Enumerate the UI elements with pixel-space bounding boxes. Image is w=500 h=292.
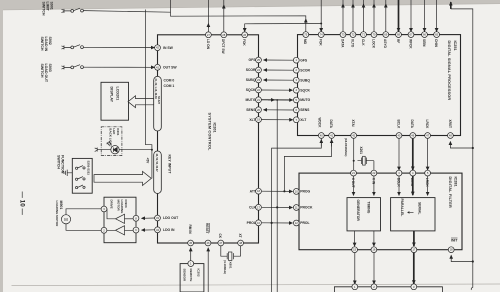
timing generator box <box>347 198 381 231</box>
svg-text:18: 18 <box>450 248 453 252</box>
svg-text:11: 11 <box>295 206 298 210</box>
wire IC201 LD ON pin up off-page <box>207 0 209 32</box>
svg-text:X IN: X IN <box>371 178 375 185</box>
svg-text:66: 66 <box>423 33 426 37</box>
svg-text:SWITCH: SWITCH <box>57 155 61 169</box>
svg-text:MOTOR: MOTOR <box>116 200 120 212</box>
wire CLK row to PROCK <box>262 206 293 208</box>
DSP top pin labels <box>303 39 438 49</box>
wire timing gen out 2 <box>373 231 375 246</box>
svg-text:DIGITAL SIGNAL PROCESSOR: DIGITAL SIGNAL PROCESSOR <box>447 41 451 101</box>
wire CLK up off-page <box>363 0 365 32</box>
wire V down to page edge with hook <box>471 262 473 290</box>
svg-text:16: 16 <box>372 248 375 252</box>
node PROL bus tap <box>271 222 273 224</box>
svg-text:LCD201: LCD201 <box>116 87 120 101</box>
svg-text:XLTO: XLTO <box>350 39 354 48</box>
pin ATT <box>256 188 262 194</box>
pin DATA (DSP top) <box>340 32 346 38</box>
svg-text:17: 17 <box>412 248 415 252</box>
wire X OUT into timing generator <box>353 176 355 195</box>
svg-text:SENS: SENS <box>246 108 256 112</box>
overline RESET (vertical) <box>208 223 210 233</box>
svg-text:IN SW: IN SW <box>163 46 174 50</box>
svg-text:DATA: DATA <box>329 120 333 129</box>
svg-text:WFCK: WFCK <box>408 39 412 49</box>
wire FOK branch to IC201 FOK pin <box>245 24 322 32</box>
svg-text:LOCK: LOCK <box>371 39 375 49</box>
svg-text:70: 70 <box>373 33 376 37</box>
labels IC201 right pins <box>246 58 257 225</box>
pin ASYO <box>383 32 389 38</box>
pin CLK (IC201) <box>256 204 262 210</box>
svg-text:SWITCH: SWITCH <box>42 2 46 16</box>
wire buffer2 <box>104 229 133 231</box>
pin LDO IN <box>155 227 161 233</box>
IC201 SYSTEM CONTROL box <box>158 35 259 243</box>
node crystal tap <box>353 160 355 162</box>
pin PROL (IC201) <box>256 220 262 226</box>
svg-text:S201-S211: S201-S211 <box>87 161 91 176</box>
svg-text:BCLK: BCLK <box>396 120 400 130</box>
svg-text:71: 71 <box>362 33 365 37</box>
pin MUTG (DSP) <box>293 97 299 103</box>
svg-text:COM 0: COM 0 <box>164 79 175 83</box>
pin IC903 left 2 <box>101 227 107 233</box>
loading motor M901 <box>61 215 70 224</box>
svg-text:40: 40 <box>320 134 323 138</box>
pin XLT (DSP) <box>293 117 299 123</box>
pin INIT <box>448 247 454 253</box>
svg-text:22: 22 <box>372 171 375 175</box>
wire IC201 DFCT SW pin up off-page <box>223 0 225 32</box>
svg-text:SQCK: SQCK <box>246 88 256 92</box>
svg-text:FOK: FOK <box>319 39 323 46</box>
wire XT down to crystal <box>240 246 242 256</box>
ground <box>64 170 72 176</box>
pin RESET <box>205 240 211 246</box>
svg-text:DATA: DATA <box>340 39 344 48</box>
wire motor top <box>66 209 101 215</box>
pin LRCK (DSP) <box>425 133 431 139</box>
wire serial/parallel out (thick) <box>413 231 415 246</box>
wire XRST net top stub with up arrow (thick) <box>450 2 452 9</box>
arrow serial to parallel <box>408 212 414 214</box>
pin LDO OUT <box>155 215 161 221</box>
wire DATA into serial/parallel (thick) <box>412 176 414 195</box>
svg-text:DATA: DATA <box>410 178 414 187</box>
node ATT bus tap <box>283 190 285 192</box>
wire SCOR row <box>264 69 295 71</box>
svg-text:LOADING MOTOR: LOADING MOTOR <box>55 201 59 228</box>
switch S903 connector <box>62 65 71 69</box>
node FOK branch <box>320 23 322 25</box>
svg-text:RM IN: RM IN <box>188 225 192 235</box>
pin BCLK (filter) <box>396 170 402 176</box>
svg-text:47: 47 <box>219 241 222 245</box>
svg-text:XRST: XRST <box>448 120 452 129</box>
svg-text:41: 41 <box>330 134 333 138</box>
pin SEIN <box>422 32 428 38</box>
pin SQCK (DSP) <box>293 87 299 93</box>
svg-text:41: 41 <box>156 65 159 69</box>
IC281 DIGITAL FILTER box <box>299 173 462 250</box>
svg-text:DATA: DATA <box>410 120 414 129</box>
wire LOCK up off-page <box>373 0 375 32</box>
svg-text:XTAI: XTAI <box>351 120 355 127</box>
switch S901 <box>71 8 84 12</box>
wire MUTG tap down <box>276 100 278 292</box>
pin GFS (DSP) <box>293 57 299 63</box>
pin X IN <box>371 170 377 176</box>
svg-text:SERIAL: SERIAL <box>418 202 422 214</box>
svg-text:LRCK: LRCK <box>425 120 429 130</box>
svg-text:BACK LIGHT: BACK LIGHT <box>109 128 113 147</box>
pin DATA2 (DSP bottom) <box>410 133 416 139</box>
pin bottom box 3 <box>411 284 417 290</box>
wire BCLK into serial/parallel <box>398 176 400 195</box>
wire INIT from V corner <box>451 255 473 261</box>
wire S901 to MO line <box>83 11 170 13</box>
svg-text:75: 75 <box>304 33 307 37</box>
wire buffer1 in <box>125 218 134 220</box>
svg-text:OUT SW: OUT SW <box>163 66 177 70</box>
svg-text:42: 42 <box>352 134 355 138</box>
svg-text:DIGITAL FILTER: DIGITAL FILTER <box>448 177 452 208</box>
pin DFCT SW <box>221 32 227 38</box>
svg-text:SEIN: SEIN <box>422 39 426 47</box>
svg-text:28: 28 <box>222 33 225 37</box>
op-amp buffer 2 <box>116 226 125 235</box>
wire S903 to OUT SW <box>83 66 154 68</box>
wire WFCK from off-page <box>410 0 412 32</box>
connector LED <box>95 148 111 152</box>
hollow arrow LCD <box>128 96 154 108</box>
svg-text:46: 46 <box>411 134 414 138</box>
pin IN SW <box>155 45 161 51</box>
pin SUBQ (DSP) <box>293 77 299 83</box>
pin RM IN <box>188 240 194 246</box>
wire X IN into timing generator <box>373 176 375 195</box>
pin SQCK (IC201) <box>256 87 262 93</box>
pin SENS (DSP) <box>293 107 299 113</box>
svg-text:PROL: PROL <box>300 221 309 225</box>
hollow arrow key input <box>94 171 151 185</box>
wire SEIN from off-page <box>424 0 426 32</box>
svg-text:INIT: INIT <box>451 239 458 243</box>
wire RM IN from IC202 <box>190 248 192 261</box>
svg-text:IC202: IC202 <box>197 269 201 277</box>
svg-text:45: 45 <box>398 134 401 138</box>
switch S902 connector <box>62 45 71 49</box>
wire BCLK down <box>398 139 400 171</box>
arrow into DATA pin <box>331 140 333 147</box>
pin bottom box 1 <box>352 284 358 290</box>
IC903 loading motor drive box <box>104 197 136 243</box>
svg-text:42: 42 <box>156 46 159 50</box>
pin DATA (filter) <box>410 170 416 176</box>
pin IC903 left 1 <box>101 206 107 212</box>
svg-text:M: M <box>64 217 68 222</box>
svg-text:XLT: XLT <box>300 118 307 122</box>
svg-text:WDCK: WDCK <box>318 118 322 129</box>
svg-text:REMOTE: REMOTE <box>189 269 193 282</box>
IC201 bottom pin labels <box>188 223 242 239</box>
wire buffer1 out <box>104 209 116 219</box>
wire CK down to crystal <box>221 246 227 256</box>
svg-text:67: 67 <box>410 33 413 37</box>
svg-text:LRCK: LRCK <box>425 178 429 188</box>
pin PROG <box>293 189 299 195</box>
wire XRST from V line <box>450 142 472 149</box>
crystal X801 <box>227 253 240 259</box>
svg-text:KEY INPUT: KEY INPUT <box>167 155 171 175</box>
wire SQCK row <box>262 89 293 91</box>
svg-text:CK: CK <box>218 234 222 239</box>
pin CK <box>218 240 224 246</box>
svg-text:SUBQ: SUBQ <box>300 78 310 82</box>
arrow up on LD ON wire <box>207 24 209 29</box>
wire +5V vertical <box>146 10 152 179</box>
wire XLTO up off-page <box>352 0 354 32</box>
switch S902 <box>71 45 84 49</box>
wire filter out 3 down to bottom box (thick) <box>413 252 415 283</box>
pin SCOR (DSP) <box>293 67 299 73</box>
wire ATT row to PROG <box>262 190 293 192</box>
pin LOCK <box>371 32 377 38</box>
svg-text:21: 21 <box>352 171 355 175</box>
node V line XRST tap <box>472 147 474 149</box>
pin XTAI <box>351 133 357 139</box>
svg-text:72: 72 <box>352 33 355 37</box>
svg-text:48: 48 <box>239 241 242 245</box>
page bottom fold line <box>12 284 500 286</box>
svg-text:10: 10 <box>295 189 298 193</box>
pin XLT (IC201) <box>256 117 262 123</box>
pin IC202 out <box>188 261 194 267</box>
pin bottom box 2 <box>371 284 377 290</box>
wire filter out 2 down to bottom box <box>373 252 375 284</box>
crystal X201 <box>358 158 374 165</box>
svg-text:MUTG: MUTG <box>300 98 310 102</box>
pin filter out 2 <box>371 247 377 253</box>
DSP bottom pin labels <box>318 118 452 130</box>
wire SUBQ row <box>264 79 295 81</box>
svg-text:17: 17 <box>257 205 260 209</box>
pin XT <box>238 240 244 246</box>
pin PROL (filter) <box>293 220 299 226</box>
svg-text:69: 69 <box>384 33 387 37</box>
svg-text:GENERATOR: GENERATOR <box>356 200 360 222</box>
svg-text:SYSTEM CONTROL: SYSTEM CONTROL <box>208 113 212 151</box>
svg-text:21: 21 <box>257 98 260 102</box>
wire SENS row <box>264 109 295 111</box>
wire timing gen out 1 <box>354 231 356 246</box>
filter top pin labels <box>351 178 429 188</box>
svg-text:PARALLEL: PARALLEL <box>400 199 404 217</box>
LED D201 <box>107 142 119 154</box>
wire RESET from off-page bottom <box>207 248 209 292</box>
node CLK bus tap <box>276 206 278 208</box>
pin group pill KEY INPUT <box>154 151 162 194</box>
wire WDCK down-left-down <box>272 139 322 292</box>
switch S903 <box>71 65 84 69</box>
svg-text:MUTG: MUTG <box>246 98 256 102</box>
node +5V tee <box>151 149 153 151</box>
svg-text:SENSOR: SENSOR <box>183 269 187 283</box>
svg-text:(16.9344MHz): (16.9344MHz) <box>344 138 348 156</box>
pin filter out 3 <box>411 247 417 253</box>
pin MUTG (IC201) <box>256 97 262 103</box>
svg-text:73: 73 <box>342 33 345 37</box>
svg-text:SENS: SENS <box>300 108 310 112</box>
svg-text:19: 19 <box>257 118 260 122</box>
svg-text:DFCT SW: DFCT SW <box>221 39 225 54</box>
svg-text:27: 27 <box>207 33 210 37</box>
wire MO net: off-page up, S901 tap, to DSP MO pin <box>171 0 306 32</box>
svg-text:44, 52, 53, 60-67: 44, 52, 53, 60-67 <box>155 154 158 173</box>
wire top-right corner to V line <box>451 9 473 262</box>
svg-text:GFS: GFS <box>300 58 308 62</box>
arrow up on DFCT wire <box>223 5 225 10</box>
svg-text:MO: MO <box>303 39 307 45</box>
svg-text:GFS: GFS <box>249 58 257 62</box>
svg-text:74: 74 <box>320 33 323 37</box>
pin IC903 right 1 <box>133 215 139 221</box>
arrow up on MO wire <box>305 19 307 24</box>
svg-text:LDO IN: LDO IN <box>163 228 175 232</box>
svg-text:IC251: IC251 <box>453 41 457 51</box>
svg-text:IC281: IC281 <box>454 177 458 187</box>
wire CHIN from off-page <box>436 0 438 32</box>
svg-text:SUBQ: SUBQ <box>246 78 256 82</box>
serial/parallel box <box>391 198 435 231</box>
pin CLK (DSP top) <box>361 32 367 38</box>
switch S901 connector <box>62 9 71 13</box>
svg-text:PROCK: PROCK <box>300 206 313 210</box>
pin WDCK <box>318 133 324 139</box>
pin CHIN <box>434 32 440 38</box>
wire filter out 1 down to bottom box <box>354 252 356 284</box>
pin PROCK <box>293 205 299 211</box>
IC251 DSP box <box>298 35 461 136</box>
svg-text:TIMING: TIMING <box>367 202 371 214</box>
svg-text:25: 25 <box>257 58 260 62</box>
pin SUBQ (IC201) <box>256 77 262 83</box>
svg-text:DRIVE: DRIVE <box>110 200 114 209</box>
svg-text:12: 12 <box>295 221 298 225</box>
wire DATA down (thick) <box>412 139 414 170</box>
arrow mid MUTG row <box>268 99 275 101</box>
svg-text:XLT: XLT <box>249 118 256 122</box>
wire LDO IN to IC903 <box>142 229 155 231</box>
wire GFS row <box>264 59 295 61</box>
wire LED to +5V line <box>119 149 152 151</box>
svg-text:XT: XT <box>238 234 242 238</box>
node V INIT corner <box>472 260 474 262</box>
pin FOK (IC201) <box>242 32 248 38</box>
svg-text:X201: X201 <box>359 147 363 155</box>
svg-text:IC201: IC201 <box>213 123 217 133</box>
svg-text:(4.19MHz): (4.19MHz) <box>223 260 227 274</box>
svg-text:SQCK: SQCK <box>300 88 310 92</box>
svg-text:21, 22, 1-16, 49-69: 21, 22, 1-16, 49-69 <box>154 79 157 100</box>
wire MUTG row <box>262 99 293 101</box>
pin X OUT <box>351 170 357 176</box>
wire LRCK into serial/parallel <box>427 176 429 195</box>
svg-text:15: 15 <box>353 248 356 252</box>
svg-text:BCLK: BCLK <box>396 178 400 188</box>
svg-text:45: 45 <box>189 241 192 245</box>
svg-text:23: 23 <box>257 78 260 82</box>
svg-text:16: 16 <box>257 221 260 225</box>
svg-text:X OUT: X OUT <box>351 178 355 188</box>
bottom box (partial) <box>334 287 442 292</box>
pin BCLK (DSP) <box>396 133 402 139</box>
svg-text:COM 1: COM 1 <box>164 84 175 88</box>
svg-text:— 10 —: — 10 — <box>19 192 26 216</box>
pin DATA (DSP bottom) <box>329 133 335 139</box>
D201 led backlight dashed box <box>101 127 122 156</box>
svg-text:RESET: RESET <box>205 223 209 234</box>
svg-text:CLK: CLK <box>249 206 257 210</box>
svg-text:CHIN: CHIN <box>434 39 438 47</box>
pin GFS (IC201) <box>256 57 262 63</box>
switch contacts inside box <box>76 166 86 189</box>
svg-text:22: 22 <box>257 88 260 92</box>
wire FOK net: off-page top down to DSP FOK pin <box>320 0 322 32</box>
wire PROL row to PROL <box>262 222 293 224</box>
svg-text:FOK: FOK <box>242 39 246 46</box>
svg-text:+5V: +5V <box>146 158 150 165</box>
wire XTAI to X OUT <box>353 139 355 170</box>
pin OUT SW <box>155 64 161 70</box>
LCD201 display box <box>101 82 129 120</box>
svg-text:20: 20 <box>257 108 260 112</box>
page top edge line <box>3 4 500 10</box>
svg-text:SCOR: SCOR <box>246 68 256 72</box>
svg-text:LDO OUT: LDO OUT <box>163 216 179 220</box>
pin WFCK <box>408 32 414 38</box>
wire XLT row <box>262 119 293 121</box>
pin RF <box>396 32 402 38</box>
wire DATA up off-page <box>342 0 344 32</box>
function switch box S201-S211 <box>72 158 92 193</box>
svg-text:33: 33 <box>156 216 159 220</box>
arrow into WDCK pin <box>320 140 322 147</box>
svg-text:48: 48 <box>449 134 452 138</box>
svg-text:18: 18 <box>257 189 260 193</box>
svg-text:ASYO: ASYO <box>383 39 387 49</box>
svg-text:PROG: PROG <box>300 190 310 194</box>
pin SCOR (IC201) <box>256 67 262 73</box>
pin XRST <box>448 133 454 139</box>
svg-text:CLK: CLK <box>361 39 365 46</box>
pin MO (DSP) <box>303 32 309 38</box>
svg-text:DISPLAY: DISPLAY <box>110 87 114 103</box>
svg-text:ATT: ATT <box>250 189 257 193</box>
wire S902 to IN SW <box>83 46 154 48</box>
wire crystal to X IN <box>373 161 375 170</box>
svg-text:SCOR: SCOR <box>300 68 310 72</box>
svg-text:RF: RF <box>396 39 400 43</box>
op-amp buffer 1 <box>116 214 125 223</box>
pin XLTO <box>350 32 356 38</box>
wire RF from off-page (thick) <box>398 0 400 31</box>
pin LD ON <box>206 32 212 38</box>
svg-text:X801: X801 <box>229 262 233 269</box>
svg-text:PROL: PROL <box>247 221 256 225</box>
